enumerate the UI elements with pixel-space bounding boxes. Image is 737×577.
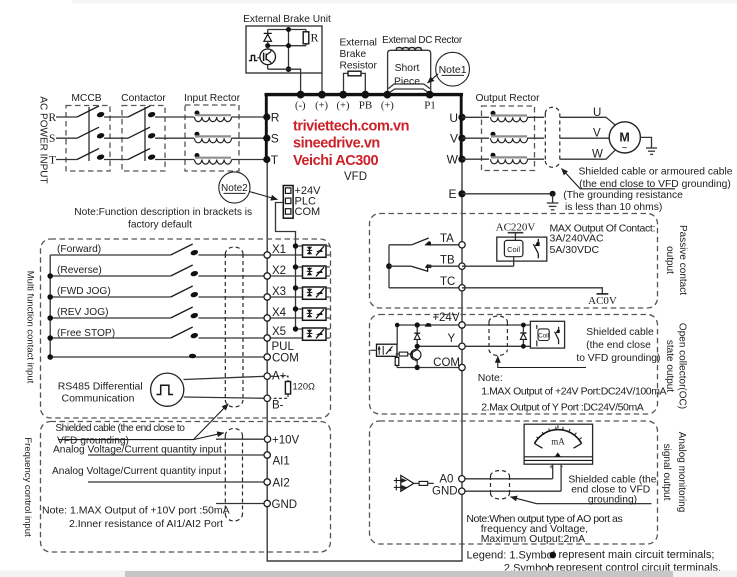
svg-text:Short: Short (395, 63, 420, 74)
svg-text:External Brake Unit: External Brake Unit (243, 14, 331, 25)
wire (199, 317, 303, 319)
svg-text:V: V (593, 128, 601, 140)
pull resistor below opto (395, 356, 399, 367)
svg-text:COM: COM (295, 206, 321, 218)
terminal X5 (264, 335, 270, 341)
svg-text:TC: TC (440, 276, 455, 288)
wire TC (389, 287, 462, 289)
svg-text:(the end close: (the end close (586, 340, 651, 351)
contactor switch T (128, 149, 156, 161)
DAC symbol (394, 475, 414, 491)
wire (199, 275, 303, 277)
wire Y (417, 345, 462, 347)
svg-text:Resistor: Resistor (340, 60, 378, 71)
ammeter meter (524, 424, 593, 471)
switch X5 (171, 327, 199, 339)
input reactor S (195, 132, 232, 143)
meter + lead (552, 464, 554, 479)
rail junction X4 (47, 315, 53, 321)
relay K2 box (530, 321, 564, 348)
svg-text:U: U (449, 111, 458, 125)
wire +24V to relay (465, 324, 530, 326)
open collector dashed box (370, 315, 658, 415)
terminal B- (264, 395, 270, 401)
svg-text:signal output: signal output (661, 444, 672, 501)
svg-text:~: ~ (622, 143, 628, 154)
wire box right edge down to (+) (321, 73, 323, 93)
relay K2 lever (555, 327, 559, 344)
wire A0 (462, 478, 553, 480)
svg-text:B-: B- (272, 400, 284, 412)
svg-text:(FWD JOG): (FWD JOG) (57, 286, 111, 297)
svg-text:5A/30VDC: 5A/30VDC (550, 244, 600, 256)
wire E to ground (462, 193, 553, 195)
legend main terminal symbol (550, 552, 557, 559)
analog monitor dashed box (370, 421, 658, 544)
svg-text:Analog monitoring: Analog monitoring (676, 432, 687, 513)
svg-text:output: output (664, 246, 675, 274)
contactor switch S (128, 127, 156, 139)
rail dot X5 (293, 326, 298, 331)
wire mid rail (268, 45, 306, 47)
emitter to COM (416, 360, 418, 368)
optocoupler X3 (296, 287, 330, 299)
svg-text:grounding): grounding) (588, 494, 637, 505)
svg-text:Passive contact: Passive contact (677, 225, 688, 295)
svg-text:R: R (49, 112, 57, 124)
terminal TC (459, 285, 465, 291)
terminal U (458, 114, 465, 121)
svg-text:RS485 Differential: RS485 Differential (58, 381, 143, 393)
MCCB dashed box (66, 106, 110, 172)
terminal TA (459, 242, 465, 248)
terminal X1 (264, 252, 270, 258)
wire COM (397, 367, 462, 369)
svg-text:W: W (447, 153, 459, 167)
MCCB switch R (77, 106, 105, 118)
output reactor U (491, 111, 528, 122)
svg-text:Open collector(OC): Open collector(OC) (677, 323, 688, 409)
bus terminal PB (361, 91, 369, 99)
freq shield capsule (225, 429, 242, 522)
wire (527, 158, 544, 160)
rail dot X2 (293, 264, 298, 269)
short piece strap (388, 84, 430, 89)
svg-text:Coil: Coil (507, 245, 520, 254)
terminal X2 (264, 273, 270, 279)
svg-text:Note: 1.MAX Output of +10V po: Note: 1.MAX Output of +10V port :50mA (42, 505, 230, 517)
wire W row out (462, 158, 489, 160)
wire (155, 137, 194, 139)
terminal V (458, 135, 465, 142)
svg-text:P1: P1 (424, 100, 436, 112)
wire W to motor (560, 150, 616, 159)
motor M1 (609, 122, 640, 154)
wire (104, 137, 128, 139)
terminal T (263, 156, 270, 163)
wire PLC to opto rail (276, 203, 296, 246)
relay K1 box (497, 237, 547, 261)
svg-text:VFD: VFD (344, 171, 367, 183)
TB contact arrow (425, 264, 432, 268)
svg-text:(Forward): (Forward) (57, 244, 101, 255)
svg-text:External: External (340, 38, 377, 49)
TA/TB/TC common rail (388, 245, 390, 288)
svg-text:120Ω: 120Ω (293, 381, 316, 391)
wire +10V (216, 438, 267, 440)
wire (104, 159, 128, 161)
output reactor W (491, 153, 528, 164)
bottom scrollbar thumb (125, 571, 673, 577)
coil leads (536, 325, 538, 329)
bus terminal (+) (318, 91, 326, 99)
terminal X4 (264, 315, 270, 321)
bottom scrollbar track (0, 571, 737, 577)
terminal E (458, 190, 465, 197)
svg-text:T: T (49, 155, 56, 167)
svg-text:AI1: AI1 (273, 456, 290, 468)
svg-text:(Reverse): (Reverse) (57, 265, 102, 276)
svg-text:Multi function contact input: Multi function contact input (25, 271, 36, 384)
svg-text:is less than 10 ohms): is less than 10 ohms) (565, 202, 662, 213)
zener diode (414, 325, 420, 346)
contactor gang link (144, 107, 146, 161)
wire R row (56, 116, 77, 118)
collector to Y (416, 346, 418, 350)
wire S row (56, 137, 77, 139)
output shield cable capsule (545, 107, 560, 167)
X-row shield capsule (225, 247, 243, 407)
wire TC to AC0V (462, 288, 602, 294)
terminal W (458, 156, 465, 163)
svg-text:Output Rector: Output Rector (475, 93, 540, 104)
input reactor R (195, 111, 232, 122)
DAC series resistor (414, 481, 434, 485)
legend control terminal symbol (548, 566, 553, 571)
svg-text:(REV JOG): (REV JOG) (57, 307, 109, 318)
pointer to output shield (562, 169, 676, 189)
TB contact lever (412, 266, 428, 271)
terminal COM2 (459, 364, 465, 370)
svg-text:AC POWER INPUT: AC POWER INPUT (38, 96, 49, 183)
pointer line to capsules (58, 439, 193, 441)
svg-text:Input Rector: Input Rector (184, 93, 241, 104)
switch X4 (171, 307, 199, 319)
svg-text:W: W (592, 149, 603, 161)
main DC bus (thick) (265, 93, 464, 96)
wire S row out (462, 137, 489, 139)
rail dot X1 (293, 243, 298, 248)
svg-text:Analog Voltage/Current quantit: Analog Voltage/Current quantity input (53, 445, 222, 456)
svg-text:Veichi AC300: Veichi AC300 (293, 153, 379, 169)
blob on +24V wire (425, 323, 432, 327)
svg-text:S: S (49, 133, 55, 145)
svg-text:Y: Y (448, 333, 456, 345)
wire X5 row (50, 337, 171, 339)
svg-text:AC220V: AC220V (496, 222, 536, 234)
svg-text:R: R (271, 111, 280, 125)
terminal S (263, 135, 270, 142)
svg-text:Coil: Coil (538, 333, 549, 340)
svg-text:TB: TB (440, 255, 455, 267)
MCCB switch S (77, 127, 105, 139)
wire (232, 137, 265, 139)
svg-text:Frequency control input: Frequency control input (22, 437, 33, 537)
svg-text:(-): (-) (295, 101, 306, 112)
optocoupler X4 (296, 308, 330, 320)
wire X3 row (50, 296, 171, 298)
wire bottom rail to (-) (268, 69, 301, 93)
TA contact lever (412, 238, 429, 245)
bus terminal (-) (297, 91, 305, 99)
wire T row (56, 159, 77, 161)
wire (199, 296, 303, 298)
optocoupler X5 (296, 328, 330, 340)
svg-text:(+): (+) (381, 101, 394, 112)
wire TB to coil (462, 265, 514, 267)
rail junction COM (47, 354, 53, 360)
svg-text:sineedrive.vn: sineedrive.vn (293, 136, 380, 152)
Note1 callout (428, 52, 470, 86)
switch X3 (171, 286, 199, 298)
svg-text:(the end close to VFD groundin: (the end close to VFD grounding) (579, 179, 731, 190)
ground E (547, 194, 559, 210)
wire GND2 (462, 490, 561, 492)
svg-text:(+): (+) (337, 101, 350, 112)
common rail left (49, 255, 51, 357)
terminal Y (459, 343, 465, 349)
transistor Q1 (IGBT) (260, 46, 276, 69)
contactor dashed box (122, 106, 165, 172)
wire X4 row (50, 317, 171, 319)
terminal AI2 (264, 479, 270, 485)
OC shield capsule (489, 316, 507, 356)
input reactor T (195, 153, 232, 164)
multi-function dashed box (41, 239, 331, 418)
contactor switch R (128, 106, 156, 118)
svg-text:COM: COM (272, 353, 299, 365)
pointer to AO capsule (511, 497, 652, 504)
terminal +10V (264, 436, 270, 442)
wire X1 row (50, 254, 171, 256)
svg-text:2.Max Output of Y Port :DC24V/: 2.Max Output of Y Port :DC24V/50mA (481, 401, 644, 413)
wire Y to relay (465, 345, 530, 347)
svg-text:TA: TA (440, 233, 454, 245)
rail junction X3 (47, 294, 53, 300)
transistor Q2 (411, 350, 421, 362)
svg-text:Note:Function description in b: Note:Function description in brackets is (74, 207, 252, 218)
MCCB switch T (77, 149, 105, 161)
relay K2 arrow (556, 330, 560, 334)
wire (431, 244, 463, 246)
rail junction X5 (47, 335, 53, 341)
base resistor (396, 352, 412, 356)
svg-text:(+): (+) (315, 101, 328, 112)
DC rector coil (396, 47, 422, 49)
svg-text:Shielded cable (the end close: Shielded cable (the end close to (55, 423, 185, 434)
svg-text:A+: A+ (272, 371, 287, 383)
AC220V supply bar (508, 233, 524, 241)
svg-text:AI2: AI2 (273, 477, 290, 489)
rail dot X3 (293, 285, 298, 290)
svg-text:Analog Voltage/Current quantit: Analog Voltage/Current quantity input (52, 466, 221, 477)
svg-text:Note:: Note: (478, 372, 503, 384)
terminal A0 (459, 476, 465, 482)
wire (199, 337, 303, 339)
svg-text:Note2: Note2 (221, 183, 248, 194)
wire (104, 116, 128, 118)
svg-text:triviettech.com.vn: triviettech.com.vn (293, 118, 409, 134)
flyback diode (520, 323, 526, 349)
node (395, 323, 400, 328)
svg-text:X2: X2 (272, 265, 286, 277)
svg-text:A0: A0 (439, 473, 453, 485)
wire COM row (50, 356, 267, 358)
wire B- (184, 397, 267, 398)
wire top rail (268, 29, 306, 31)
external DC rector box (388, 50, 431, 93)
terminal A+ (264, 373, 270, 379)
terminal TB (459, 263, 465, 269)
wire V to motor (560, 137, 609, 139)
terminal GND2 (459, 488, 465, 494)
gate pulse symbol (249, 55, 258, 60)
wire AI2 (88, 481, 267, 483)
svg-text:Piece: Piece (394, 76, 420, 87)
passive contact dashed box (370, 214, 658, 309)
meter - lead (560, 464, 562, 491)
diode D1 (264, 30, 272, 47)
wire (428, 265, 462, 267)
relay coil box (504, 240, 523, 256)
svg-text:GND: GND (432, 486, 458, 498)
relay K2 coil (538, 329, 549, 341)
svg-text:Contactor: Contactor (121, 93, 166, 104)
rail junction X2 (47, 273, 53, 279)
svg-text:R: R (311, 31, 319, 45)
bus terminal P1 (426, 91, 434, 99)
svg-text:+24V: +24V (432, 312, 460, 324)
bus terminal (+) (339, 91, 347, 99)
output rector dashed box (482, 106, 535, 171)
wire (232, 159, 265, 161)
svg-text:Maximum Output:2mA: Maximum Output:2mA (481, 533, 585, 545)
wire U row (462, 116, 489, 118)
wire (232, 116, 265, 118)
svg-text:X1: X1 (272, 244, 286, 256)
svg-text:2.Inner resistance of AI1/AI2: 2.Inner resistance of AI1/AI2 Port (69, 518, 223, 530)
svg-text:X4: X4 (272, 307, 287, 319)
motor ground (640, 137, 657, 154)
svg-text:MCCB: MCCB (71, 93, 101, 104)
svg-text:Note1: Note1 (439, 64, 467, 76)
svg-text:External DC Rector: External DC Rector (382, 35, 463, 46)
wire X2 row (50, 275, 171, 277)
contact blob on COM wire (189, 354, 196, 359)
svg-text:AC0V: AC0V (588, 295, 617, 307)
terminal +24V (459, 322, 465, 328)
VFD body outline (267, 159, 462, 561)
svg-text:(The grounding resistance: (The grounding resistance (563, 190, 683, 201)
wire +24V (396, 324, 462, 326)
RS485 pulse source (151, 373, 184, 406)
switch X1 (171, 244, 199, 256)
terminal R (263, 113, 270, 120)
svg-text:mA: mA (551, 437, 565, 447)
node on E wire (550, 191, 556, 197)
120 ohm resistor (271, 376, 315, 398)
rail junction TB (386, 263, 392, 269)
wire (527, 137, 544, 139)
pointer to OC capsule (498, 356, 586, 367)
wire +24V down to opto (396, 325, 398, 344)
svg-text:represent main circuit termina: represent main circuit terminals; (559, 549, 715, 561)
optocoupler X1 (296, 245, 330, 257)
opto common rail (295, 246, 297, 329)
OC optocoupler box (370, 344, 397, 356)
svg-text:E: E (448, 187, 456, 201)
output reactor V (491, 132, 528, 143)
relay contact arrow (535, 242, 540, 246)
brake resistor (344, 71, 366, 93)
svg-text:X5: X5 (272, 326, 286, 338)
svg-text:to VFD grounding): to VFD grounding) (576, 353, 660, 364)
TA contact arrow (424, 241, 431, 246)
svg-text:Communication: Communication (62, 393, 135, 405)
terminal COM (264, 354, 270, 360)
frequency control dashed box (41, 422, 331, 553)
external brake unit box (246, 26, 322, 73)
svg-text:Shielded cable: Shielded cable (586, 327, 654, 338)
node dots (415, 322, 420, 327)
wire AI1 (88, 454, 267, 456)
svg-text:S: S (271, 132, 279, 146)
svg-text:U: U (593, 107, 601, 119)
svg-text:T: T (271, 153, 279, 167)
node junctions (286, 27, 291, 32)
bus terminal (+) (383, 91, 391, 99)
wire mid vertical (288, 30, 290, 70)
svg-text:1.MAX Output of +24V Port:DC24: 1.MAX Output of +24V Port:DC24V/100mA (481, 385, 666, 397)
terminal GND (264, 500, 270, 506)
input rector dashed box (185, 105, 239, 171)
svg-text:X3: X3 (272, 286, 286, 298)
svg-text:Brake: Brake (340, 49, 367, 60)
coil lead to TB (513, 257, 515, 267)
svg-text:3A/240VAC: 3A/240VAC (550, 233, 605, 245)
wire A+ (184, 376, 268, 379)
optocoupler X2 (296, 266, 330, 278)
svg-text:Shielded cable or armoured cab: Shielded cable or armoured cable (579, 167, 733, 178)
Note2 callout (219, 172, 278, 203)
svg-text:Legend: 1.Symbol: Legend: 1.Symbol (467, 549, 556, 561)
wire (199, 254, 303, 256)
AO shield capsule (491, 471, 510, 500)
wire (527, 116, 544, 118)
top grey band (72, 0, 737, 4)
wire GND (216, 503, 267, 505)
svg-text:factory default: factory default (128, 219, 192, 230)
+24V/PLC/COM terminal block (283, 186, 293, 219)
wire (155, 116, 194, 118)
svg-text:V: V (450, 132, 458, 146)
wire TB (389, 265, 412, 267)
resistor R (303, 30, 318, 46)
wire U to motor (560, 117, 616, 125)
svg-text:+10V: +10V (272, 435, 300, 447)
rail dot X4 (293, 306, 298, 311)
MCCB gang link (88, 107, 90, 161)
